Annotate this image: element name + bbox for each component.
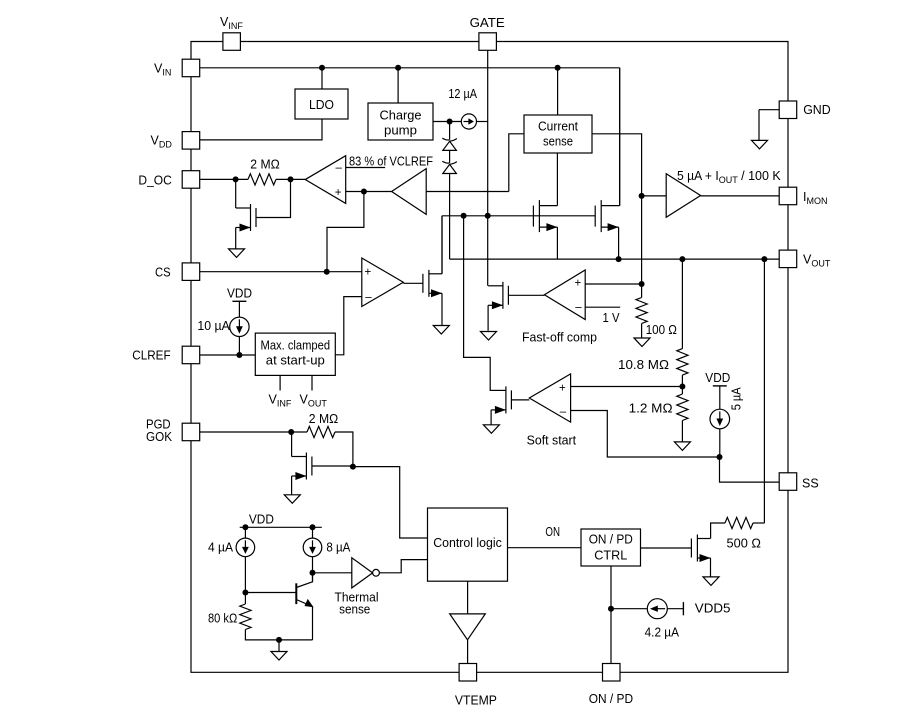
svg-text:GATE: GATE (470, 16, 505, 30)
svg-text:CS: CS (155, 266, 171, 280)
wire 4uA to base node (244, 557, 246, 604)
ground at Q8 source (703, 577, 719, 586)
wire current sense output to IMON net (592, 134, 642, 284)
wire 100ohm bottom lead (641, 324, 643, 339)
wire Q2 source down to VOUT rail (556, 227, 558, 259)
wire charge pump output (433, 121, 461, 123)
svg-text:–: – (560, 406, 567, 418)
svg-text:100 Ω: 100 Ω (646, 323, 677, 337)
node PGD mos drain junction (350, 464, 356, 470)
current source 4 uA (236, 538, 255, 557)
svg-text:+: + (335, 187, 342, 199)
wire control logic output (ON) (508, 547, 582, 549)
wire zener chain top (449, 122, 451, 140)
wire ON/PD CTRL to Q8 gate (641, 547, 692, 549)
wire VIN rail drop to Q3 drain (619, 68, 621, 206)
pin VINF (223, 33, 241, 51)
wire GATE pin vertical (487, 50, 489, 285)
svg-text:D_OC: D_OC (138, 174, 171, 188)
node bottom rail ground junction (276, 637, 282, 643)
svg-text:VDD5: VDD5 (695, 602, 731, 616)
svg-text:Current: Current (538, 119, 578, 133)
current source 5 uA (710, 409, 730, 429)
svg-text:Control logic: Control logic (433, 536, 502, 550)
svg-text:+: + (575, 278, 582, 290)
wire LDO output to VDD pin (200, 119, 322, 140)
wire 4.2uA left lead (611, 608, 647, 610)
pin CS (182, 263, 200, 281)
pin VDD (182, 132, 200, 150)
node VDD rail / 8uA (310, 524, 316, 530)
wire buffer to VTEMP pin (467, 640, 469, 664)
svg-text:CLREF: CLREF (132, 349, 171, 363)
wire Q1 drain to D_OC left node (235, 179, 237, 208)
wire VDD to 10uA source (238, 301, 240, 317)
inverter U7 thermal sense (352, 558, 373, 588)
node VOUT / divider branch (679, 256, 685, 262)
node GATE / mos gate line junction (485, 213, 491, 219)
wire 8uA to inverter input (312, 557, 314, 583)
wire max-clamp box VOUT stub (311, 375, 313, 390)
svg-text:10 µA: 10 µA (197, 319, 230, 333)
svg-text:83 % of VCLREF: 83 % of VCLREF (349, 155, 433, 169)
wire 8uA top stub (312, 527, 314, 538)
resistor 10.8 Mohm (677, 349, 688, 375)
wire Q2 drain up to current sense (556, 153, 558, 206)
current source 4.2 uA (647, 599, 667, 619)
node CLREF junction (236, 352, 242, 358)
wire U6 minus input to SS net (571, 411, 720, 458)
VDD bar (5uA) (713, 385, 727, 387)
pin VTEMP (459, 664, 477, 682)
node ON/PD stub / 4.2uA junction (608, 606, 614, 612)
svg-text:–: – (336, 162, 343, 174)
svg-text:pump: pump (384, 124, 417, 138)
resistor 1.2 Mohm (677, 394, 688, 420)
VDD bar (10uA) (232, 300, 246, 302)
wire U5 minus input 1V reference (585, 306, 620, 308)
wire VDD rail (thermal) (240, 526, 322, 528)
wire gate line corner down to Q4 drain (441, 216, 443, 274)
wire Q3 drain up to VIN rail corner (619, 68, 621, 206)
wire inverter input (313, 572, 352, 574)
block charge pump (368, 103, 433, 140)
svg-text:500 Ω: 500 Ω (727, 537, 761, 551)
svg-text:80 kΩ: 80 kΩ (208, 612, 237, 626)
pin IMON (779, 187, 797, 205)
ground at Q4 source (433, 326, 449, 335)
node gate line / soft-start branch (461, 213, 467, 219)
node charge pump output / zener junction (447, 119, 453, 125)
pin GND (779, 101, 797, 119)
svg-text:VDD: VDD (227, 287, 252, 301)
wire 4uA top stub (244, 527, 246, 538)
svg-text:ON: ON (545, 525, 560, 539)
wire 4.2uA to VDD5 terminal (667, 608, 683, 610)
wire Q6 gate to comparator tip (511, 399, 529, 401)
wire 500ohm left lead to Q8 drain (711, 523, 725, 539)
svg-text:5 µA: 5 µA (730, 387, 744, 411)
wire divider top lead (681, 259, 683, 349)
svg-text:at start-up: at start-up (266, 354, 325, 368)
current source 10 uA (230, 317, 249, 336)
transistor Q1 (D_OC clamp) (255, 208, 257, 227)
wire PGD resistor right corner down (335, 432, 353, 467)
current source 8 uA (303, 538, 322, 557)
svg-text:SS: SS (802, 477, 819, 491)
block ON/PD CTRL (581, 529, 641, 566)
svg-text:10.8 MΩ: 10.8 MΩ (618, 358, 669, 372)
node VOUT / 500ohm branch (761, 256, 767, 262)
wire Q8 source to ground (710, 558, 712, 577)
wire PGD node to control logic (353, 467, 428, 538)
resistor 100 ohm (636, 298, 647, 324)
wire Q6 source to ground (490, 410, 492, 425)
ground at Q5 source (481, 332, 497, 341)
wire Q4 drain up to gate line corner (441, 216, 443, 274)
svg-text:12 µA: 12 µA (448, 87, 477, 101)
ground (thermal) (271, 652, 287, 661)
wire Q9 emitter down (312, 607, 314, 640)
node VDD rail / 4uA (242, 524, 248, 530)
wire LDO input stub (321, 68, 323, 89)
wire Q1 gate to D_OC right node (256, 179, 291, 217)
wire Q5 gate to comparator tip (508, 294, 544, 296)
wire between zeners (449, 151, 451, 163)
wire current sense top stub (557, 68, 559, 115)
svg-text:ON / PD: ON / PD (589, 692, 633, 706)
ground symbol at GND pin (759, 109, 779, 111)
wire ON/PD CTRL bottom stub to pin (610, 566, 612, 664)
svg-text:Charge: Charge (380, 109, 422, 123)
svg-text:VDD: VDD (249, 512, 274, 526)
wire ground stem (thermal) (278, 640, 280, 652)
node VIN-LDO junction (319, 65, 325, 71)
svg-text:GOK: GOK (146, 430, 173, 444)
op-amp U8 VTEMP buffer (450, 614, 486, 640)
svg-text:1 V: 1 V (603, 311, 621, 325)
node IMON amp input junction (639, 193, 645, 199)
resistor 2 Mohm (D_OC) (248, 174, 276, 185)
wire 80k bottom to emitter (245, 630, 312, 640)
wire U3 output to IMON pin (701, 195, 780, 197)
node VOUT / Q3 source (616, 256, 622, 262)
svg-text:1.2 MΩ: 1.2 MΩ (629, 402, 673, 416)
wire zener chain down to VOUT rail (449, 174, 451, 259)
node divider mid / soft-start plus (679, 384, 685, 390)
svg-text:VDD: VDD (705, 371, 730, 385)
pin VOUT (779, 250, 797, 268)
transistor Q5 (fast-off pull) (507, 286, 509, 305)
ground at Q7 source (284, 495, 300, 504)
svg-text:2 MΩ: 2 MΩ (309, 412, 338, 426)
wire U4 output to Q4 gate (403, 282, 423, 284)
wire Q4 source to ground (441, 293, 443, 325)
svg-text:+: + (365, 267, 372, 279)
node base node junction (242, 590, 248, 596)
wire Q7 drain from PGD node (291, 432, 293, 457)
current source 12 uA (461, 114, 476, 129)
wire current sense left tap vertical (509, 134, 524, 192)
svg-text:–: – (575, 302, 582, 314)
op-amp U5 fast-off comparator (544, 270, 585, 320)
wire 5uA to SS node (719, 429, 721, 457)
svg-text:sense: sense (339, 603, 370, 617)
resistor 500 ohm (725, 517, 753, 528)
wire CLREF pin to max-clamp box (200, 354, 256, 356)
pin VIN (182, 59, 200, 76)
wire charge pump input stub (397, 68, 399, 103)
svg-text:CTRL: CTRL (594, 549, 627, 563)
ground at Q6 source (483, 425, 499, 434)
op-amp U6 soft start comparator (529, 374, 570, 422)
op-amp U3 IMON amp (666, 174, 700, 218)
node D_OC left (233, 176, 239, 182)
wire 500ohm right lead (753, 522, 764, 524)
IC boundary frame (191, 42, 788, 673)
zener diode Z2 (442, 161, 449, 163)
wire Q1 source to ground (235, 228, 237, 249)
wire 100ohm top lead (641, 284, 643, 298)
wire U3 input (642, 195, 667, 197)
ground below 1.2 Mohm (674, 442, 690, 451)
block max clamped at start-up (255, 333, 335, 375)
svg-text:sense: sense (543, 134, 573, 148)
node U1 plus / buffer output junction (361, 189, 367, 195)
wire shared gate line for Q2/Q3 (442, 215, 595, 217)
node D_OC right (288, 176, 294, 182)
wire junction down-left to CS line (327, 192, 364, 272)
wire VIN rail (200, 67, 620, 69)
pin SS (779, 473, 797, 491)
block control logic (428, 508, 508, 581)
wire VDD to 5uA source (719, 386, 721, 409)
block current sense (524, 115, 592, 153)
wire soft-start drain branch from gate-line node (464, 216, 492, 391)
svg-text:2 MΩ: 2 MΩ (250, 157, 279, 171)
svg-text:Soft start: Soft start (527, 434, 577, 448)
wire PGD pin to resistor (200, 431, 307, 433)
resistor 2 Mohm (PGD) (307, 426, 335, 437)
pin ON/PD (bottom) (603, 664, 621, 682)
VDD5 terminal bar (682, 602, 684, 615)
pin PGD GOK (182, 423, 200, 441)
zener diode Z1 (442, 138, 449, 140)
node VIN-charge-pump junction (395, 65, 401, 71)
wire U1 minus input stub (83% of VCLREF) (346, 167, 385, 169)
node 8uA / inverter input junction (310, 570, 316, 576)
wire 1.2M bottom lead (681, 421, 683, 442)
wire Q3 source down to VOUT rail (618, 227, 620, 259)
transistor Q3 (current sense right) (594, 206, 596, 227)
wire VOUT rail (450, 258, 780, 260)
svg-text:4 µA: 4 µA (208, 540, 234, 554)
svg-text:+: + (559, 383, 566, 395)
op-amp U4 CS comparator (362, 258, 404, 307)
wire SS net to SS pin (720, 457, 780, 482)
transistor Q2 (current sense left) (532, 206, 534, 227)
svg-text:Max. clamped: Max. clamped (261, 339, 331, 353)
svg-text:8 µA: 8 µA (326, 540, 351, 554)
svg-text:GND: GND (803, 103, 831, 117)
node PGD junction (288, 429, 294, 435)
node CS line junction (324, 269, 330, 275)
wire inverter output to control logic (379, 560, 427, 573)
transistor Q6 (soft start) (510, 390, 512, 409)
wire Q7 source to ground (291, 476, 293, 495)
wire U6 plus input to divider mid (571, 386, 683, 388)
op-amp U2 VCLREF buffer (392, 169, 427, 215)
transistor Q7 (PGD driver) (311, 457, 313, 476)
ground at Q1 source (229, 249, 245, 258)
block LDO (295, 89, 348, 119)
svg-text:–: – (365, 292, 372, 304)
wire Q5 source to ground (487, 305, 489, 330)
pin CLREF (182, 346, 200, 364)
pin D_OC (182, 171, 200, 189)
transistor Q4 (CS follower) (422, 274, 424, 293)
svg-text:LDO: LDO (309, 98, 334, 112)
wire Q9 collector up (312, 573, 314, 582)
wire max-clamp box VINF stub (279, 375, 281, 390)
node SS net junction (717, 454, 723, 460)
node VIN-current-sense junction (555, 65, 561, 71)
wire Q7 gate to PGD mos drain node (312, 465, 353, 467)
wire U2 input from current sense tap (426, 191, 509, 193)
transistor Q8 (SS discharge) (690, 539, 692, 558)
wire 500ohm branch from VOUT rail (763, 259, 765, 523)
wire 12uA to GATE line (477, 121, 488, 123)
wire U4 minus input from max-clamp box (335, 297, 362, 355)
wire U1 plus input (346, 191, 392, 193)
wire CS pin to comparator (200, 271, 362, 273)
wire control logic to VTEMP buffer (467, 581, 469, 614)
svg-text:VTEMP: VTEMP (455, 694, 497, 708)
ground below 100 ohm (634, 338, 650, 347)
transistor Q9 (thermal BJT) (295, 583, 297, 604)
svg-text:Fast-off comp: Fast-off comp (522, 331, 597, 345)
wire base lead (245, 592, 296, 594)
resistor 80 kohm (240, 604, 251, 630)
op-amp U1 D_OC comparator (305, 156, 346, 204)
svg-text:4.2 µA: 4.2 µA (645, 625, 680, 639)
wire divider mid (681, 375, 683, 394)
svg-text:ON / PD: ON / PD (589, 533, 633, 547)
wire U5 plus input to 100ohm node (585, 283, 641, 285)
node 100ohm top / fast-off plus junction (639, 281, 645, 287)
wire 10uA to CLREF line (238, 337, 240, 356)
wire D_OC pin to resistor (200, 178, 248, 180)
wire resistor to comparator output (276, 178, 305, 180)
pin GATE (479, 33, 497, 51)
